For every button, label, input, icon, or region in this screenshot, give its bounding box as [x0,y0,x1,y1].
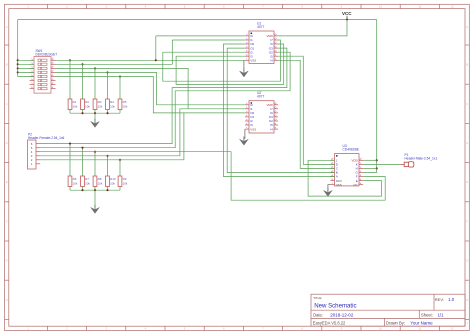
wire net to P1 [363,163,400,165]
wire resistor bank2 ground rail [70,189,120,191]
wire riser SW1r1 to U1r1 [155,36,157,60]
wire R2 bottom wire [82,110,84,114]
svg-text:C: C [6,102,8,106]
svg-text:VSS: VSS [250,127,256,131]
svg-text:E: E [6,180,8,184]
wire bank2 gnd stem [94,190,96,207]
wire SW1 row1 long wire to U1 pin7 [56,59,245,61]
wire U1 in row6 riser x176 [176,44,284,84]
wire SW1 row3 wire to U2 row2 net [56,68,189,108]
wire SW1 left pin row 1 to VCC riser [18,59,34,61]
wire R10 top wire [107,156,109,176]
wire SW1 left pin row 2 to VCC riser [18,63,34,65]
wire R5 top wire [119,77,121,100]
wire P2 row2 to U1 right pin 10 [40,52,290,148]
wire U1 out pin8 to U3 left row3 [278,60,334,168]
svg-text:CD4082BE: CD4082BE [343,148,360,152]
resistor R7 [81,176,85,187]
svg-text:C: C [466,102,468,106]
wire riser SW1r2 to U1r2 [171,40,173,64]
wire VCC right riser to U3 [363,20,377,173]
wire R9 bottom wire [119,187,121,191]
wire VCC drop to U1 VDD [278,20,347,36]
junctions SW1 rows to resistors [69,59,121,77]
junctions SW1 left VCC [17,59,19,73]
svg-text:2018-12-02: 2018-12-02 [330,313,354,318]
svg-text:DSIC08LSGET: DSIC08LSGET [36,53,58,57]
svg-text:4077: 4077 [257,95,265,99]
wire P2 row5 to U2 row3 [40,113,245,160]
wire U1 in row1 from SW1 row1 [156,35,245,37]
svg-text:Sheet:: Sheet: [421,313,433,318]
IC U2 [249,101,274,133]
svg-text:H: H [466,298,468,302]
wire SW1 left pin row 3 to VCC riser [18,67,34,69]
wire U2 VSS stem [244,129,246,139]
svg-text:10k: 10k [73,181,78,185]
resistor R2 [81,99,85,110]
svg-text:D: D [6,141,8,145]
junctions bank2 rail [81,189,108,191]
wire R9 top wire [119,160,121,176]
svg-text:I4: I4 [270,127,273,131]
svg-text:1.0: 1.0 [448,297,454,302]
svg-text:New Schematic: New Schematic [314,303,356,310]
svg-text:Header-Female-2.54_1x6: Header-Female-2.54_1x6 [28,136,65,140]
junction SW1r1 riser [155,59,157,61]
wire U1 out row3 to U3 left row A [223,44,334,177]
junction VCC rail [346,18,348,20]
wire U1 out row4 to U3 left row B [227,48,334,172]
wire R8 top wire [94,152,96,176]
wire U3 VSS elbow [328,185,331,190]
wire U3 pin stub VCC2 [363,167,377,169]
wire P2 row4 to U2 row2 [40,109,245,156]
header P2 [28,140,37,169]
wire U1 out pin9 to U3 left row2 [278,56,334,164]
svg-text:I4: I4 [270,59,273,63]
wire R3 bottom wire [94,110,96,114]
wire SW1 row2 wire [56,63,173,65]
ground bank1 [91,119,100,128]
svg-text:VCC: VCC [342,11,352,16]
wire R10 bottom wire [107,187,109,191]
wire VCC rail top [18,19,377,21]
wire VCC stem [346,16,348,20]
wire R6 bottom wire [69,187,71,191]
wire R4 bottom wire [107,110,109,114]
resistor R4 [106,99,110,110]
resistor R3 [93,99,97,110]
wire R4 top wire [107,72,109,99]
wire P2 row3 loop to U3 right pin F [40,152,385,201]
svg-text:EasyEDA V5.8.22: EasyEDA V5.8.22 [313,321,346,326]
wire U1 in row5 riser x162 [163,40,281,81]
svg-text:Your Name: Your Name [410,321,433,326]
wire U1 VSS stem [243,60,245,70]
svg-text:A: A [6,25,8,29]
header P1 [404,162,414,167]
wire R8 bottom wire [94,187,96,191]
svg-text:REV:: REV: [435,297,444,302]
svg-text:D: D [466,141,468,145]
wire resistor bank1 ground rail [70,112,120,114]
wire R1 bottom wire [69,110,71,114]
IC U3 [335,154,360,186]
svg-text:1/1: 1/1 [438,313,444,318]
wire R3 top wire [94,68,96,99]
wire U1 in row2 from SW1 row2 [172,39,245,41]
wire R7 bottom wire [82,187,84,191]
svg-text:10k: 10k [73,104,78,108]
svg-text:G: G [6,259,8,263]
ground U2 [240,137,249,146]
wire SW1 row4 wire to U2 row1 [56,72,245,104]
wire bank1 gnd stem [94,113,96,121]
wire P2 row1 to U1 right pin 11 [40,48,287,144]
resistor R10 [106,176,110,187]
resistor R5 [118,99,122,110]
svg-text:10k: 10k [98,181,103,185]
wire R7 top wire [82,148,84,176]
resistor R1 [68,99,72,110]
header P1 pin stub [400,163,404,165]
wire VCC left riser to SW1 [17,20,19,77]
wire U3 VDD stub [363,159,377,161]
wire R5 bottom wire [119,110,121,114]
junctions bank1 rail [81,112,108,114]
IC U1 [249,31,274,63]
svg-text:10k: 10k [110,181,115,185]
wire SW1 row5 wire to U2 row3 net [56,77,184,113]
wire R1 top wire [69,60,71,99]
svg-text:Drawn By:: Drawn By: [386,321,405,326]
svg-text:E: E [466,180,468,184]
wire SW1 left pin row 4 to VCC riser [18,71,34,73]
svg-text:VSS: VSS [336,183,342,187]
svg-text:Header-Male-2.54_1x1: Header-Male-2.54_1x1 [405,157,438,161]
ground bank2 [91,205,100,214]
wire R2 top wire [82,64,84,99]
svg-text:H: H [6,298,8,302]
svg-text:4077: 4077 [257,25,265,29]
wire R6 top wire [69,144,71,176]
svg-text:B: B [6,63,8,67]
svg-text:B: B [466,63,468,67]
ground U3 [324,188,333,197]
resistor R9 [118,176,122,187]
ground U1 [240,68,249,77]
svg-text:VSS: VSS [250,59,256,63]
svg-text:TITLE:: TITLE: [313,296,322,300]
svg-text:10k: 10k [123,104,128,108]
resistor R6 [68,176,72,187]
resistor R8 [93,176,97,187]
svg-text:G: G [466,259,468,263]
svg-text:10k: 10k [98,104,103,108]
junctions U3 VCC [376,159,378,169]
svg-text:10k: 10k [85,181,90,185]
wire SW1 left pin row 5 to VCC riser [18,76,34,78]
title block grid [311,294,465,326]
wire U3 left row1 loop to U3 right pin E [308,160,381,196]
svg-text:10k: 10k [85,104,90,108]
svg-text:10k: 10k [110,104,115,108]
svg-text:Date:: Date: [313,313,323,318]
svg-text:10k: 10k [123,181,128,185]
junctions P2 rows to resistors [69,143,121,161]
DIP switch SW1 [34,57,51,94]
svg-text:A: A [466,25,468,29]
